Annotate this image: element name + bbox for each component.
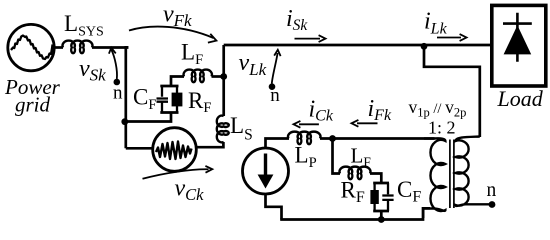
wire: block top to LF [171, 77, 184, 87]
inductor LSYS [63, 41, 93, 54]
svg-text:n: n [487, 180, 497, 201]
wire: LF to right rail junction [212, 75, 224, 78]
svg-text:iSk: iSk [286, 6, 308, 34]
resistor RF / capacitor CF parallel block frame [373, 183, 389, 211]
load box [492, 5, 546, 86]
diode inside load [503, 13, 532, 62]
power grid waveform [11, 36, 53, 60]
inductor LF (top) [184, 70, 212, 83]
svg-text:RF: RF [341, 178, 365, 207]
svg-text:1: 2: 1: 2 [428, 118, 456, 138]
arrow vLk [272, 53, 278, 84]
svg-text:vCk: vCk [175, 176, 205, 204]
svg-text:vSk: vSk [79, 56, 106, 85]
wire: block bottom to rail [380, 211, 383, 220]
svg-text:RF: RF [188, 88, 211, 116]
transformer secondary winding [456, 137, 492, 206]
wire: LF to RF/CF block top [370, 174, 381, 184]
current source circle [243, 148, 289, 194]
svg-text:LF: LF [351, 144, 372, 170]
wire: right rail top [222, 45, 225, 77]
svg-text:v1p // v2p: v1p // v2p [409, 97, 467, 119]
node junction on left rail [121, 118, 128, 125]
svg-text:Load: Load [497, 86, 544, 111]
arrow vCk [143, 169, 209, 179]
node vLk dot [269, 83, 276, 90]
AC source vCk [153, 128, 197, 172]
wire: junction down to LF bottom [333, 139, 341, 174]
svg-text:n: n [113, 83, 123, 104]
arrow iLk [437, 37, 461, 39]
svg-text:CF: CF [397, 177, 421, 206]
main top wire [224, 44, 491, 47]
bottom rail wire [280, 208, 430, 219]
wire: LS bottom to vCk source [196, 142, 223, 147]
resistor RF body [176, 86, 178, 113]
svg-text:LSYS: LSYS [64, 11, 104, 40]
capacitor CF / resistor RF parallel block frame [160, 86, 178, 113]
svg-text:iFk: iFk [368, 96, 392, 124]
inductor LF (bottom) [340, 167, 371, 180]
wire: source to LSYS [53, 46, 63, 49]
svg-text:grid: grid [15, 93, 51, 117]
svg-text:LS: LS [230, 113, 253, 144]
wire: LP to transformer primary [320, 137, 435, 140]
wire: junction to CF/RF block bottom [126, 113, 171, 122]
arrow vFk [129, 27, 214, 38]
node n dot (transformer) [489, 201, 496, 208]
arrow iFk [357, 122, 378, 124]
arrow iSk [295, 38, 321, 40]
vCk source waveform [156, 142, 192, 160]
wire: right rail down to LS [222, 76, 225, 116]
current source arrow [264, 154, 267, 178]
capacitor CF plates (bottom) [382, 183, 393, 211]
svg-text:iLk: iLk [424, 9, 448, 38]
svg-text:LP: LP [295, 143, 317, 172]
AC source: power grid [8, 24, 54, 70]
inductor LS [217, 116, 229, 143]
node junction on main wire [421, 43, 428, 50]
wire: load return from junction [424, 48, 480, 137]
wire: LSYS to left rail corner [92, 46, 127, 48]
svg-text:CF: CF [133, 85, 156, 113]
transformer core [450, 140, 454, 209]
node junction bottom rail [378, 216, 385, 223]
capacitor CF plates [157, 86, 169, 113]
svg-text:n: n [270, 85, 280, 106]
wire: current source top to LP [266, 139, 290, 149]
wire: current source bottom to rail [266, 194, 282, 220]
wire: left vertical rail [124, 46, 127, 148]
resistor RF body (bottom) [373, 183, 375, 211]
node junction iFk branch [329, 135, 336, 142]
node vSk dot [114, 79, 121, 86]
svg-text:iCk: iCk [309, 97, 334, 125]
arrow iCk [299, 123, 319, 125]
arrow vSk [111, 50, 117, 79]
svg-text:vFk: vFk [163, 2, 192, 31]
node junction right rail [220, 73, 227, 80]
wire: left rail to vCk source [126, 147, 153, 150]
inductor LP [288, 132, 320, 145]
svg-text:LF: LF [181, 40, 203, 68]
transformer primary winding [423, 138, 445, 218]
svg-text:vLk: vLk [239, 50, 267, 79]
